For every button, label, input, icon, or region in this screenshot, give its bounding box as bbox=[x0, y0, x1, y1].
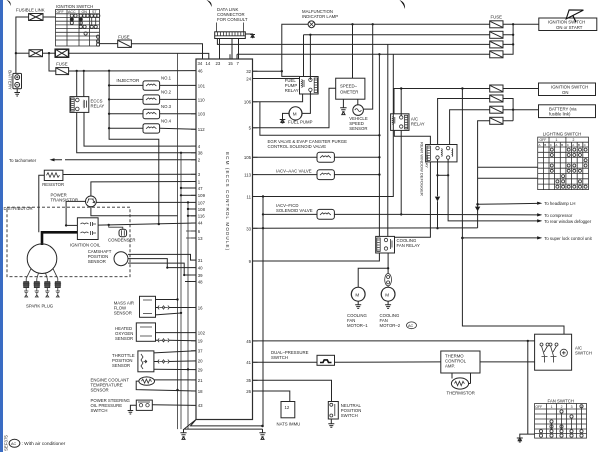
label leader lines bbox=[217, 23, 244, 32]
wire f2-1 left with AC relay feed bbox=[394, 89, 490, 114]
injector NO.1 bbox=[109, 76, 196, 91]
wire pin24 bbox=[253, 78, 300, 80]
svg-text:2: 2 bbox=[573, 138, 575, 142]
svg-text:SWITCH: SWITCH bbox=[575, 351, 592, 356]
wire DPS to thermo amp bbox=[335, 361, 441, 363]
ignition coil box bbox=[77, 218, 98, 240]
fusible link FL1 bbox=[29, 14, 43, 21]
wire AC relay coil to defogger relay coil bbox=[394, 130, 430, 144]
wire transistor right to pin107 bbox=[96, 201, 196, 203]
svg-text:To tachometer: To tachometer bbox=[9, 158, 37, 163]
svg-text:ON: ON bbox=[82, 10, 88, 14]
arrow headlamp bbox=[537, 202, 542, 205]
junction fan switch rail bbox=[527, 340, 529, 342]
svg-text:IACV–AAC VALVE: IACV–AAC VALVE bbox=[276, 169, 312, 174]
svg-text:SENSOR: SENSOR bbox=[115, 336, 133, 341]
wire connector to pin15 bbox=[231, 39, 233, 60]
spark plug 4 bbox=[55, 279, 62, 297]
ECCS relay feed wires bbox=[77, 71, 84, 97]
fuse group2 F3 bbox=[490, 106, 503, 113]
ground fan switch bbox=[517, 438, 523, 442]
svg-text:B: B bbox=[544, 143, 546, 147]
junction pin32 node bbox=[281, 70, 283, 72]
svg-text:46: 46 bbox=[198, 69, 203, 74]
wire drop to left fuse bbox=[49, 53, 56, 71]
mass air flow sensor box bbox=[140, 296, 156, 317]
thick coil to distributor lead bbox=[42, 232, 77, 245]
cooling fan motor 2 bbox=[381, 287, 395, 301]
fan switch table bbox=[535, 404, 587, 439]
bus y35 bbox=[304, 35, 490, 77]
distributor body bbox=[27, 244, 57, 274]
wire relay to fuel pump motor bbox=[302, 92, 310, 114]
wire ficd right to compressor line bbox=[334, 213, 537, 216]
wire ECCS relay out to pin4 bus bbox=[84, 112, 196, 146]
svg-text:15: 15 bbox=[228, 61, 233, 66]
ground symbol left bbox=[180, 429, 186, 439]
svg-text:FOR CONSULT: FOR CONSULT bbox=[217, 17, 248, 22]
cam sensor wire A to pin31 bbox=[128, 254, 196, 260]
svg-text:110: 110 bbox=[198, 97, 205, 102]
engine coolant temp sensor bbox=[139, 377, 155, 385]
fuse F-left bbox=[56, 68, 69, 75]
svg-text:31: 31 bbox=[198, 258, 203, 263]
svg-text:3: 3 bbox=[571, 405, 573, 409]
svg-text:29: 29 bbox=[198, 367, 203, 372]
IACV-AAC valve bbox=[317, 170, 334, 180]
wire connector to pin23 bbox=[219, 39, 221, 60]
wire pin32 bbox=[253, 70, 282, 72]
svg-text:OFF: OFF bbox=[540, 138, 547, 142]
svg-text:AMP.: AMP. bbox=[445, 364, 455, 369]
svg-text:SENSOR: SENSOR bbox=[91, 387, 109, 392]
svg-text:45: 45 bbox=[246, 339, 251, 344]
wire defogger left pin down with diode bbox=[437, 159, 439, 228]
svg-text:SOLENOID VALVE: SOLENOID VALVE bbox=[276, 208, 313, 213]
svg-text:B: B bbox=[578, 143, 580, 147]
TPS wire bottom to pin29 bbox=[154, 368, 196, 370]
arrow rear window defogger bbox=[537, 219, 542, 222]
svg-text:FUSE: FUSE bbox=[118, 35, 130, 40]
wire FL2 to connector bbox=[43, 52, 56, 54]
ignition switch table bbox=[56, 10, 100, 47]
junction rail3 on pin107 wire bbox=[187, 201, 189, 203]
junction compressor node bbox=[400, 213, 402, 215]
svg-text:34: 34 bbox=[198, 61, 203, 66]
svg-text:FUEL PUMP: FUEL PUMP bbox=[288, 120, 313, 125]
junction AAC rail bbox=[378, 173, 380, 175]
wire ECCS relay out to pin38 bus bbox=[77, 112, 196, 152]
svg-text:33: 33 bbox=[246, 226, 251, 231]
svg-text:SENSOR: SENSOR bbox=[88, 259, 106, 264]
wire defogger right pin to rear window line bbox=[448, 159, 537, 221]
ground fuel pump bbox=[280, 120, 286, 124]
svg-text:: With air conditioner: : With air conditioner bbox=[22, 441, 66, 447]
wire battery to FL1 and ignition switch bbox=[16, 17, 56, 73]
svg-text:40: 40 bbox=[198, 265, 203, 270]
wire to headlamp arrow bbox=[478, 202, 538, 205]
svg-text:ACC: ACC bbox=[68, 10, 76, 14]
A/C relay bbox=[391, 114, 409, 131]
rail fan switch down bbox=[520, 341, 535, 438]
junction MAF top on rail1 bbox=[176, 298, 178, 300]
ECM left pin numbers bbox=[198, 69, 206, 409]
svg-text:20: 20 bbox=[198, 359, 203, 364]
junction pin47 bbox=[180, 187, 182, 189]
svg-text:RELAY: RELAY bbox=[285, 88, 299, 93]
ground motor2 bbox=[385, 301, 391, 308]
neutral position switch bbox=[328, 402, 338, 420]
ECM top pin numbers bbox=[198, 61, 240, 66]
injector NO.4 bbox=[109, 118, 196, 133]
svg-text:16: 16 bbox=[198, 305, 203, 310]
ground neutral switch bbox=[328, 419, 334, 427]
wire pin35 to neutral switch bbox=[253, 380, 332, 401]
rail ignition-on down to AC switch bbox=[462, 89, 564, 335]
svg-text:INDICATOR LAMP: INDICATOR LAMP bbox=[302, 14, 338, 19]
svg-text:21: 21 bbox=[198, 378, 203, 383]
ground below battery bbox=[14, 89, 20, 96]
IACV-FICD solenoid valve bbox=[317, 209, 334, 219]
wire bus54 stub under connector bbox=[230, 54, 237, 59]
ECT wire top to pin21 bbox=[155, 379, 197, 381]
svg-text:107: 107 bbox=[198, 200, 206, 205]
svg-text:CONDENSER: CONDENSER bbox=[108, 237, 135, 242]
wire pin2 to tachometer bbox=[55, 159, 197, 161]
fuse group2 F4 bbox=[490, 117, 503, 124]
svg-text:RELAY: RELAY bbox=[411, 122, 425, 127]
svg-text:113: 113 bbox=[244, 173, 251, 178]
fuel pump motor bbox=[289, 107, 302, 120]
junction battery rail bbox=[512, 109, 514, 111]
svg-text:NO.1: NO.1 bbox=[161, 76, 172, 81]
svg-text:FUSE: FUSE bbox=[56, 62, 68, 67]
svg-text:INJECTOR: INJECTOR bbox=[116, 78, 140, 83]
shield rail 1 bbox=[177, 53, 179, 429]
svg-text:37: 37 bbox=[198, 348, 203, 353]
resistor box bbox=[44, 170, 63, 180]
fuse group1 F1 bbox=[490, 21, 503, 28]
junction eccs relay feed a bbox=[76, 70, 78, 72]
shield rail 2 bbox=[180, 153, 182, 429]
ECCS relay bbox=[70, 97, 89, 113]
svg-text:38: 38 bbox=[198, 151, 203, 156]
svg-text:OMETER: OMETER bbox=[340, 89, 358, 94]
junction wire C bend bbox=[183, 274, 185, 276]
wire pin105 EGR bbox=[253, 156, 318, 158]
svg-text:FUSIBLE LINK: FUSIBLE LINK bbox=[16, 7, 45, 12]
wire pin9 to fan relay bbox=[253, 253, 380, 261]
fuse group1 F3 bbox=[490, 41, 503, 48]
connector ground bbox=[245, 34, 255, 38]
lighting switch table bbox=[538, 137, 589, 190]
svg-text:REAR WINDOW DEFOGGER: REAR WINDOW DEFOGGER bbox=[420, 142, 425, 196]
junction eccs relay feed b bbox=[83, 70, 85, 72]
spark plug 2 bbox=[34, 279, 41, 297]
wire lamp right bus24 bbox=[315, 23, 490, 25]
svg-text:1: 1 bbox=[551, 405, 553, 409]
svg-text:SEF375: SEF375 bbox=[4, 435, 9, 451]
svg-text:SPARK PLUG: SPARK PLUG bbox=[26, 304, 54, 309]
cursor arrow bbox=[566, 10, 583, 19]
junction super lock bbox=[461, 237, 464, 240]
injector NO.2 bbox=[109, 90, 196, 105]
junction pin109 bbox=[180, 194, 182, 196]
wire thermo to AC switch bbox=[480, 361, 535, 363]
wire row2 long to ECM pin14 bbox=[69, 53, 209, 59]
svg-text:RESISTOR: RESISTOR bbox=[42, 182, 64, 187]
ECM left pin ticks bbox=[191, 71, 196, 406]
ignition switch contacts bbox=[70, 14, 100, 46]
power transistor Q bbox=[86, 196, 97, 207]
AC oval tag bbox=[407, 322, 417, 329]
wire vss right bbox=[363, 24, 372, 109]
wire pin33 bus bbox=[253, 227, 478, 229]
svg-text:FAN SWITCH: FAN SWITCH bbox=[548, 398, 575, 403]
binding mark 1 bbox=[7, 0, 11, 6]
heated oxygen sensor box bbox=[136, 323, 155, 341]
diode lighting rail bbox=[475, 207, 480, 212]
wire resistor left drop bbox=[39, 175, 45, 232]
fuse group2 F1 bbox=[490, 85, 503, 92]
junction pin116 bbox=[187, 215, 189, 217]
spark plug 3 bbox=[44, 279, 51, 297]
speedometer ground bbox=[340, 99, 346, 114]
svg-text:112: 112 bbox=[198, 127, 205, 132]
wire table to top fuse bbox=[100, 43, 118, 45]
junction wire B bend bbox=[166, 267, 168, 269]
svg-text:SWITCH: SWITCH bbox=[271, 355, 288, 360]
wire rail2 to pin47 bbox=[181, 187, 196, 189]
rail bus44 drop to fan relay bbox=[387, 44, 389, 236]
fusible link FL2 bbox=[29, 50, 43, 57]
pin48 stub bbox=[185, 281, 196, 283]
svg-text:19: 19 bbox=[198, 339, 203, 344]
svg-text:NO.2: NO.2 bbox=[161, 90, 172, 95]
svg-text:109: 109 bbox=[198, 193, 206, 198]
connector X box row2 bbox=[55, 49, 68, 57]
svg-text:26: 26 bbox=[246, 389, 251, 394]
junction injector bus feed bbox=[108, 70, 110, 72]
malfunction indicator lamp bbox=[308, 21, 315, 28]
AC note oval bbox=[9, 439, 20, 447]
HO2S wire bottom to pin19 with connector bbox=[156, 338, 197, 342]
junction ign-on rail bbox=[461, 87, 463, 89]
junction diode to bus bbox=[436, 227, 438, 229]
diode defogger bbox=[435, 197, 440, 202]
ECT wire bottom loop to pin18 bbox=[136, 381, 196, 391]
fuse group2 F2 bbox=[490, 95, 503, 102]
svg-text:AC: AC bbox=[11, 442, 17, 446]
rail x263 down bbox=[262, 197, 265, 426]
ECM right pin ticks bbox=[253, 71, 258, 391]
cam sensor wire C to pin39 bbox=[128, 263, 196, 275]
TPS wire top to pin37 bbox=[154, 351, 196, 353]
binding mark 2 bbox=[207, 0, 212, 7]
svg-text:B: B bbox=[561, 143, 563, 147]
junction AC relay top bbox=[400, 87, 402, 89]
svg-text:A: A bbox=[555, 143, 557, 147]
injector supply bus bbox=[109, 71, 159, 225]
wire EGR to rail bbox=[334, 156, 379, 158]
arrow compressor bbox=[537, 213, 542, 216]
wire AC relay pin drop bbox=[400, 89, 402, 116]
svg-text:103: 103 bbox=[198, 112, 206, 117]
ECM ground bus lines bbox=[184, 420, 263, 430]
junction pin108 bbox=[187, 208, 189, 210]
NATS IMMU box bbox=[281, 402, 295, 418]
svg-text:NO.3: NO.3 bbox=[161, 104, 172, 109]
vehicle speed sensor bbox=[353, 99, 364, 115]
svg-text:NO.4: NO.4 bbox=[161, 118, 172, 123]
ground symbol right bbox=[259, 429, 265, 439]
svg-text:IGNITION COIL: IGNITION COIL bbox=[70, 242, 101, 247]
junction ficd node bbox=[262, 213, 264, 215]
svg-text:RELAY: RELAY bbox=[91, 103, 105, 108]
fuel pump relay bbox=[300, 77, 319, 95]
svg-text:fusible link): fusible link) bbox=[549, 111, 571, 116]
wire defogger coil down to cooling fan relay bbox=[395, 162, 431, 237]
wire f2-1 right to IGN ON box bbox=[503, 88, 539, 90]
svg-text:DISTRIBUTOR: DISTRIBUTOR bbox=[4, 206, 33, 211]
svg-text:THERMISTOR: THERMISTOR bbox=[447, 390, 475, 395]
junction bus54 valves drop bbox=[378, 53, 380, 55]
svg-text:24: 24 bbox=[246, 76, 251, 81]
svg-text:SENSOR: SENSOR bbox=[114, 311, 132, 316]
wire coil right to pin44 bbox=[98, 223, 196, 225]
svg-text:FAN RELAY: FAN RELAY bbox=[397, 243, 420, 248]
wire to coil left terminal bbox=[66, 224, 77, 226]
svg-text:OFF: OFF bbox=[57, 10, 65, 14]
junction pin33 node bbox=[262, 227, 264, 229]
wire motor to ground bbox=[283, 113, 290, 119]
svg-text:48: 48 bbox=[198, 279, 203, 284]
svg-text:SENSOR: SENSOR bbox=[112, 363, 130, 368]
junction injector-bus end on coil wire bbox=[158, 223, 160, 225]
svg-text:39: 39 bbox=[198, 273, 203, 278]
wire resistor right to pin3 bbox=[63, 173, 196, 175]
HO2S wire top to pin102 bbox=[156, 332, 197, 334]
wire fan relay down to motors bbox=[387, 253, 389, 287]
distributor cap terminals bbox=[26, 269, 58, 279]
junction pin11 branch bbox=[262, 195, 264, 197]
junction TPS bottom rail3 bbox=[187, 368, 189, 370]
svg-text:SPEED–: SPEED– bbox=[340, 83, 358, 88]
svg-text:47: 47 bbox=[198, 186, 203, 191]
fuse F-top-left bbox=[118, 40, 132, 47]
junction fuel pump relay drop bbox=[309, 34, 311, 36]
svg-text:SWITCH: SWITCH bbox=[341, 413, 358, 418]
box IGNITION SWITCH ON bbox=[539, 83, 596, 96]
power steering oil pressure switch bbox=[136, 400, 152, 410]
blue page edge strip bbox=[0, 0, 3, 452]
svg-text:43: 43 bbox=[198, 403, 203, 408]
svg-text:105: 105 bbox=[244, 155, 252, 160]
camshaft position sensor bbox=[114, 252, 128, 266]
wire pin113 AAC bbox=[253, 174, 318, 176]
svg-text:AC: AC bbox=[408, 324, 414, 328]
thermistor bbox=[451, 378, 468, 389]
ECM right pin numbers bbox=[244, 69, 252, 394]
throttle position sensor box bbox=[138, 351, 154, 372]
cooling fan motor 1 bbox=[351, 287, 365, 301]
svg-text:13: 13 bbox=[198, 236, 203, 241]
svg-text:OFF: OFF bbox=[535, 405, 542, 409]
svg-text:101: 101 bbox=[198, 83, 206, 88]
junction battery feed bbox=[15, 52, 17, 54]
AC switch contacts bbox=[540, 343, 567, 363]
junction ground bus right bbox=[261, 425, 264, 428]
wire transistor top to pin1 bbox=[91, 182, 196, 197]
injector NO.3 bbox=[109, 104, 196, 119]
pin stubs 109 6 13 108 bbox=[186, 231, 196, 238]
MAF wire bottom bbox=[156, 313, 182, 315]
wire lighting feed 2 bbox=[478, 177, 538, 179]
svg-text:M: M bbox=[293, 112, 297, 117]
wire rail3 to pin116 bbox=[188, 215, 196, 217]
binding mark 3 bbox=[400, 0, 406, 9]
junction defogger pins tie bbox=[436, 174, 438, 176]
svg-text:12: 12 bbox=[285, 405, 290, 410]
distributor dashed enclosure bbox=[7, 207, 130, 277]
svg-text:14: 14 bbox=[206, 61, 211, 66]
svg-text:A: A bbox=[572, 143, 574, 147]
junction headlamp bbox=[476, 203, 479, 206]
junction coil terminal bbox=[65, 224, 67, 226]
fuse group1 F4 bbox=[490, 51, 503, 58]
svg-text:MOTOR–1: MOTOR–1 bbox=[347, 323, 368, 328]
svg-text:To compressor: To compressor bbox=[544, 213, 573, 218]
svg-text:102: 102 bbox=[198, 330, 206, 335]
wire lighting feed 1 bbox=[478, 166, 538, 168]
wire ficd left bbox=[263, 213, 317, 215]
wire connector to bus44 bbox=[217, 39, 489, 45]
wire f2-2 left drop bbox=[438, 99, 490, 145]
junction speedometer drop bbox=[351, 23, 353, 25]
svg-text:108: 108 bbox=[198, 207, 206, 212]
svg-text:116: 116 bbox=[198, 214, 205, 219]
svg-text:A: A bbox=[539, 143, 541, 147]
svg-text:2: 2 bbox=[561, 405, 563, 409]
svg-text:41: 41 bbox=[246, 360, 251, 365]
junction vss drop bbox=[372, 23, 374, 25]
dual pressure switch bbox=[317, 355, 335, 365]
wire AAC to rail bbox=[334, 174, 379, 176]
wire pin41 bbox=[253, 361, 318, 363]
thermo control amp box bbox=[441, 351, 480, 373]
svg-text:ON: ON bbox=[562, 90, 568, 95]
data link connector bbox=[215, 32, 246, 39]
wire pin5 to speedometer bbox=[253, 88, 336, 128]
junction condenser tap bbox=[108, 224, 110, 226]
box BATTERY via fusible link bbox=[539, 105, 596, 118]
wire pin26 to NATS bbox=[253, 391, 290, 402]
rail valves supply bbox=[378, 54, 380, 236]
AC switch box bbox=[535, 334, 572, 370]
wire pin106 valve feed bbox=[260, 102, 380, 136]
fan switch contacts bbox=[539, 405, 583, 438]
svg-text:IGNITION SWITCH: IGNITION SWITCH bbox=[551, 85, 588, 90]
svg-text:35: 35 bbox=[246, 378, 251, 383]
arrow super lock bbox=[537, 236, 542, 239]
svg-text:18: 18 bbox=[198, 389, 203, 394]
svg-text:SWITCH: SWITCH bbox=[91, 408, 108, 413]
junction merge dots bbox=[512, 23, 514, 25]
rear window defogger relay bbox=[426, 145, 457, 162]
wire relay to pin106 bbox=[253, 94, 303, 102]
lighting switch contacts bbox=[550, 148, 587, 188]
thermistor leads bbox=[452, 373, 471, 384]
